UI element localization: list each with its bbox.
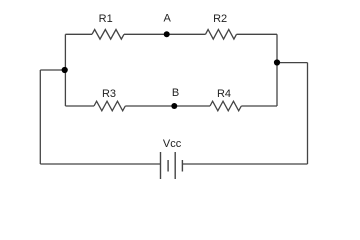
svg-text:R3: R3 — [102, 88, 116, 100]
battery Vcc plate short left — [167, 160, 169, 172]
wire R1 to node A — [124, 33, 167, 35]
wire R3 to node B — [125, 105, 174, 107]
battery Vcc plate short right — [181, 160, 183, 172]
wire top branch left segment — [65, 33, 92, 35]
resistor R2 — [206, 30, 237, 40]
node B junction dot — [171, 103, 177, 109]
wire right dot to outer right — [277, 62, 308, 64]
svg-text:Vcc: Vcc — [163, 138, 182, 150]
wire bottom branch left segment — [65, 105, 94, 107]
svg-text:R1: R1 — [99, 13, 113, 25]
wire right vertical — [276, 34, 278, 106]
wire node B to R4 — [174, 105, 210, 107]
svg-text:R2: R2 — [213, 13, 227, 25]
wire bottom left to battery — [40, 163, 160, 165]
wire outer left vertical — [39, 70, 41, 164]
resistor R4 — [210, 101, 241, 111]
svg-text:R4: R4 — [217, 88, 231, 100]
wire left dot to outer left — [40, 69, 65, 71]
wire node A to R2 — [167, 33, 206, 35]
resistor R3 — [94, 101, 125, 111]
node right junction dot — [274, 59, 280, 65]
svg-text:A: A — [164, 13, 172, 25]
node A junction dot — [164, 31, 170, 37]
wire left vertical — [64, 34, 66, 106]
wire outer right vertical — [307, 63, 309, 164]
battery Vcc plate long left — [160, 152, 162, 179]
svg-text:B: B — [172, 87, 179, 99]
wire R2 to right corner — [237, 33, 278, 35]
node left junction dot — [62, 67, 68, 73]
resistor R1 — [92, 30, 124, 40]
wire R4 to right vertical — [241, 105, 277, 107]
wire bottom right to battery — [182, 163, 307, 165]
battery Vcc plate long right — [174, 152, 176, 179]
